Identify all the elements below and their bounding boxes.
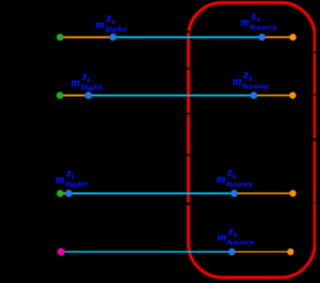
tick left y=113.7 bbox=[185, 113, 193, 115]
tick left y=68.5 bbox=[185, 68, 193, 70]
row4 magenta dot bbox=[57, 248, 65, 256]
row3 green dot bbox=[57, 190, 64, 197]
row3 blue dot m_light bbox=[65, 190, 72, 197]
svg-text:m: m bbox=[56, 174, 65, 186]
label m^z_s_light row1 light bbox=[95, 11, 127, 34]
row3 orange light segment bbox=[60, 192, 68, 194]
tick left y=155 bbox=[185, 154, 193, 156]
row1 orange heavy segment bbox=[262, 36, 293, 38]
row1 orange end dot bbox=[290, 34, 297, 41]
row3 cyan segment bbox=[69, 192, 235, 194]
svg-text:heavy: heavy bbox=[226, 180, 254, 188]
label m^z_s_heavy row3 heavy bbox=[217, 165, 255, 188]
svg-text:m: m bbox=[218, 232, 227, 244]
svg-text:m: m bbox=[241, 17, 250, 29]
row2 orange end dot bbox=[289, 92, 296, 99]
label m^z_s_light row2 light bbox=[71, 69, 103, 92]
row2 cyan segment bbox=[89, 94, 254, 96]
row1 cyan segment bbox=[113, 36, 262, 38]
svg-text:m: m bbox=[217, 174, 226, 186]
svg-text:z: z bbox=[243, 67, 249, 81]
red rounded box around heavy-mass region bbox=[188, 3, 314, 278]
svg-text:light: light bbox=[105, 25, 127, 33]
black axis ticks crossing the red box edges bbox=[185, 31, 317, 205]
svg-text:heavy: heavy bbox=[227, 238, 255, 246]
svg-text:heavy: heavy bbox=[250, 23, 278, 31]
label m^z_s_heavy row2 heavy bbox=[233, 67, 271, 90]
label m^z_s_heavy row4 heavy bbox=[218, 223, 256, 246]
row1 orange light segment bbox=[60, 36, 113, 38]
tick left y=203.5 bbox=[185, 202, 193, 205]
svg-text:m: m bbox=[233, 75, 242, 87]
svg-text:s: s bbox=[248, 74, 252, 83]
row4 blue dot m_heavy bbox=[228, 248, 235, 255]
row3 orange heavy segment bbox=[234, 192, 293, 194]
row3 orange end dot bbox=[290, 190, 297, 197]
tick left y=31.7 bbox=[185, 31, 193, 33]
row3 blue dot m_heavy bbox=[231, 190, 238, 197]
tick right y=94.9 bbox=[312, 94, 317, 95]
svg-text:light: light bbox=[81, 83, 103, 91]
row2 orange light segment bbox=[60, 94, 89, 96]
svg-text:z: z bbox=[105, 11, 111, 25]
row2 blue dot m_heavy bbox=[250, 92, 257, 99]
svg-text:z: z bbox=[227, 165, 233, 179]
svg-text:z: z bbox=[228, 223, 234, 237]
tick right y=52.5 bbox=[312, 52, 317, 53]
tick right y=202.9 bbox=[315, 202, 317, 203]
row1 blue dot m_light bbox=[109, 34, 116, 41]
svg-text:m: m bbox=[71, 77, 80, 89]
svg-text:s: s bbox=[256, 15, 260, 24]
row2 orange heavy segment bbox=[254, 94, 293, 96]
row4 orange end dot bbox=[287, 248, 294, 255]
row4 cyan segment bbox=[61, 251, 232, 253]
svg-text:m: m bbox=[95, 19, 104, 31]
svg-text:s: s bbox=[232, 172, 236, 181]
svg-text:z: z bbox=[66, 166, 72, 180]
svg-text:z: z bbox=[81, 69, 87, 83]
row1 green dot bbox=[57, 34, 64, 41]
svg-text:light: light bbox=[65, 180, 87, 188]
row4 orange heavy segment bbox=[232, 251, 291, 253]
label m^z_s_light row3 light bbox=[56, 166, 88, 189]
row2 blue dot m_light bbox=[85, 92, 92, 99]
svg-text:s: s bbox=[233, 230, 237, 239]
divider line y=139.5 bbox=[304, 138, 316, 141]
svg-text:heavy: heavy bbox=[243, 82, 271, 90]
svg-text:z: z bbox=[251, 8, 257, 22]
row2 green dot bbox=[56, 92, 63, 99]
label m^z_s_heavy row1 heavy bbox=[241, 8, 279, 31]
row1 blue dot m_heavy bbox=[258, 34, 265, 41]
